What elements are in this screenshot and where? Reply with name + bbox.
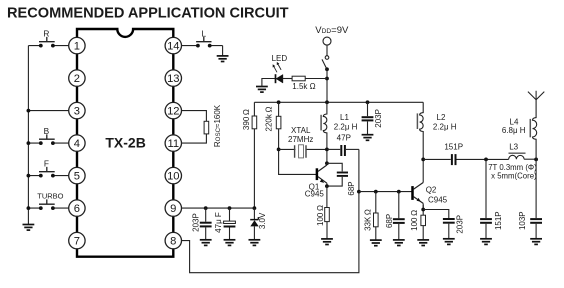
wire to 151P series xyxy=(423,158,451,160)
ground (203P pin9) xyxy=(200,240,212,246)
wire to 47P xyxy=(327,148,340,150)
pin 3 xyxy=(69,102,85,118)
ground (Q2 emitter) xyxy=(417,240,429,246)
svg-text:ROSC≈160K: ROSC≈160K xyxy=(213,104,222,147)
node XTAL/47P/L1 xyxy=(325,148,329,152)
pin 2 xyxy=(69,70,85,86)
ground (33K) xyxy=(370,240,382,246)
capacitor 103P xyxy=(530,219,542,223)
pin 4 xyxy=(69,135,85,151)
svg-text:27MHz: 27MHz xyxy=(288,135,313,144)
wire pin6 to switch TURBO xyxy=(28,207,68,209)
node Q1 emitter xyxy=(325,184,329,188)
Vdd terminal xyxy=(323,37,331,45)
svg-text:B: B xyxy=(44,126,50,136)
wire LED ground riser xyxy=(262,79,276,87)
svg-text:220k Ω: 220k Ω xyxy=(264,107,273,132)
pin 8 xyxy=(165,232,181,248)
wire switch to rail xyxy=(326,69,328,102)
capacitor 203P (pin9) xyxy=(205,208,207,222)
svg-text:TX-2B: TX-2B xyxy=(105,134,145,150)
svg-text:7: 7 xyxy=(74,236,80,248)
pin 9 xyxy=(165,200,181,216)
svg-text:100 Ω: 100 Ω xyxy=(316,205,325,226)
node rail-F xyxy=(27,174,31,178)
wire pin8 feedback to Q2 base node xyxy=(182,149,359,272)
capacitor 47µF electrolytic xyxy=(229,208,231,221)
svg-text:14: 14 xyxy=(167,41,179,53)
svg-text:5: 5 xyxy=(74,171,80,183)
node 151P shunt xyxy=(484,158,488,162)
antenna xyxy=(528,91,544,100)
svg-text:3: 3 xyxy=(74,106,80,118)
wire emitter to 203P right xyxy=(423,210,449,219)
svg-text:1.5k Ω: 1.5k Ω xyxy=(292,82,315,91)
capacitor 151P shunt xyxy=(485,159,487,218)
node 203P xyxy=(204,206,208,210)
wire 220k down to Q1 base xyxy=(279,129,317,175)
node Q2 emitter xyxy=(421,208,425,212)
wire emitter to 100R xyxy=(326,186,328,207)
ground (151P shunt) xyxy=(480,239,492,245)
ground (Q1 emitter) xyxy=(321,239,333,245)
transistor Q2 C945 xyxy=(413,183,424,210)
wire pin4 to switch B xyxy=(28,142,68,144)
L4 core bar xyxy=(529,119,531,137)
node rail-TURBO xyxy=(27,206,31,210)
IC U1 TX-2B body xyxy=(77,29,173,257)
wire pin3 to rail xyxy=(28,110,68,112)
svg-text:RECOMMENDED APPLICATION CIRCUI: RECOMMENDED APPLICATION CIRCUIT xyxy=(7,6,289,22)
ground (68P base) xyxy=(393,240,405,246)
switch R xyxy=(39,28,55,47)
svg-text:13: 13 xyxy=(167,73,179,85)
wire 47P to feedback line xyxy=(346,148,359,150)
wire base node to Q2 xyxy=(359,191,413,193)
svg-text:L: L xyxy=(201,28,206,38)
resistor 390Ω xyxy=(253,102,255,116)
svg-text:4: 4 xyxy=(74,138,80,150)
svg-text:6: 6 xyxy=(74,203,80,215)
node 68P2 xyxy=(397,190,401,194)
svg-text:203P: 203P xyxy=(374,109,383,128)
resistor 1.5kΩ xyxy=(292,76,305,81)
svg-text:8: 8 xyxy=(170,236,176,248)
capacitor 203P (Q2) xyxy=(443,219,455,223)
node zener xyxy=(253,206,257,210)
wire Q2 collector up xyxy=(422,159,424,182)
node Q1 collector xyxy=(325,161,329,165)
svg-text:203P: 203P xyxy=(456,215,465,234)
pin 6 xyxy=(69,200,85,216)
resistor 220kΩ xyxy=(278,102,280,116)
wire pin14 to switch L xyxy=(182,46,223,56)
capacitor 68P (base) xyxy=(398,192,400,219)
inductor L4 6.8uH xyxy=(533,100,537,160)
node rail/203P top xyxy=(366,100,370,104)
wire pin5 to switch F xyxy=(28,175,68,177)
wire Vdd to switch xyxy=(326,45,328,55)
wire Rosc to pin11 xyxy=(182,134,207,143)
transistor Q1 C945 xyxy=(317,163,327,186)
svg-text:3.0V: 3.0V xyxy=(258,212,267,229)
wire 151P to L3 xyxy=(457,158,509,160)
svg-text:6.8μ H: 6.8μ H xyxy=(502,126,526,135)
svg-text:10: 10 xyxy=(167,171,179,183)
switch B xyxy=(39,126,55,145)
svg-text:9: 9 xyxy=(170,203,176,215)
node 47uF xyxy=(228,206,232,210)
svg-text:47P: 47P xyxy=(337,134,351,143)
zener diode 3.0V xyxy=(253,208,255,220)
svg-text:L1: L1 xyxy=(340,113,349,122)
svg-text:LED: LED xyxy=(272,54,288,63)
wire 103P top xyxy=(535,159,537,218)
svg-text:11: 11 xyxy=(167,138,179,150)
pin 7 xyxy=(69,232,85,248)
svg-text:12: 12 xyxy=(167,106,179,118)
wire pin12 to Rosc xyxy=(182,111,207,122)
ground (left rail) xyxy=(23,225,35,231)
wire 1.5k to node xyxy=(305,78,327,80)
resistor 33KΩ xyxy=(375,192,377,213)
wire pin1 to switch R xyxy=(28,45,68,47)
capacitor 151P series xyxy=(452,154,456,165)
pin 14 xyxy=(165,37,181,53)
wire 390 to pin9 net xyxy=(253,129,255,208)
switch TURBO xyxy=(37,192,63,211)
node switch/1.5k xyxy=(325,77,329,81)
node rail/switch xyxy=(325,100,329,104)
svg-text:TURBO: TURBO xyxy=(37,192,63,201)
main supply rail xyxy=(254,101,423,103)
ground (zener) xyxy=(249,240,261,246)
node Q2 collector xyxy=(421,158,425,162)
svg-text:2: 2 xyxy=(74,73,80,85)
LED D1 xyxy=(273,62,283,83)
svg-text:2.2μ H: 2.2μ H xyxy=(433,122,457,131)
L2 core bar xyxy=(416,113,418,129)
svg-text:Q2: Q2 xyxy=(426,186,437,195)
svg-text:33K Ω: 33K Ω xyxy=(364,209,373,231)
svg-text:68P: 68P xyxy=(385,214,394,228)
svg-text:x 5mm(Core): x 5mm(Core) xyxy=(491,172,537,181)
svg-text:L2: L2 xyxy=(437,113,446,122)
wire L3 to antenna node xyxy=(524,158,536,160)
svg-text:100 Ω: 100 Ω xyxy=(410,210,419,231)
svg-text:151P: 151P xyxy=(494,211,503,230)
capacitor 203P (rail) xyxy=(367,102,369,116)
resistor Rosc≈160K xyxy=(204,121,209,134)
node rail-pin3 xyxy=(27,109,31,113)
resistor 100Ω (Q1) xyxy=(325,208,330,222)
inductor L3 xyxy=(509,155,524,159)
svg-text:151P: 151P xyxy=(444,143,463,152)
wire LED to R 1.5k xyxy=(283,78,292,80)
svg-text:103P: 103P xyxy=(518,211,527,230)
pin 5 xyxy=(69,167,85,183)
wire pin9 net xyxy=(182,207,255,209)
svg-text:390 Ω: 390 Ω xyxy=(242,109,251,130)
svg-text:F: F xyxy=(44,158,49,168)
ground (203P Q2) xyxy=(443,239,455,245)
switch L xyxy=(196,28,212,47)
svg-text:XTAL: XTAL xyxy=(291,126,311,135)
switch F xyxy=(39,158,55,177)
svg-text:VDD=9V: VDD=9V xyxy=(315,25,349,36)
node rail-B xyxy=(27,141,31,145)
svg-text:L3: L3 xyxy=(509,142,518,151)
svg-text:68P: 68P xyxy=(347,181,356,195)
L1 core bar xyxy=(320,115,322,131)
node feedback/Q2 base xyxy=(357,190,361,194)
crystal XTAL 27MHz xyxy=(295,145,306,158)
svg-text:C945: C945 xyxy=(428,195,448,204)
svg-text:2.2μ H: 2.2μ H xyxy=(334,123,358,132)
node rail/220k xyxy=(277,100,281,104)
pin 13 xyxy=(165,70,181,86)
ground (203P rail) xyxy=(362,135,374,141)
ground (103P) xyxy=(530,239,542,245)
inductor L1 2.2uH xyxy=(323,102,327,163)
pin 12 xyxy=(165,102,181,118)
pin 10 xyxy=(165,167,181,183)
capacitor 68P (Q1) xyxy=(327,163,342,171)
power switch xyxy=(322,56,329,72)
node 33K xyxy=(374,190,378,194)
svg-text:1: 1 xyxy=(74,41,80,53)
svg-text:203P: 203P xyxy=(191,213,200,232)
resistor 100Ω (Q2) xyxy=(421,215,426,225)
ground (LED) xyxy=(256,87,268,93)
wire Q2 emitter down xyxy=(422,205,424,215)
node antenna xyxy=(534,158,538,162)
svg-text:C945: C945 xyxy=(305,189,325,198)
node 220k/XTAL xyxy=(277,148,281,152)
L3 core bar xyxy=(509,152,526,154)
svg-text:47μ F: 47μ F xyxy=(214,212,223,233)
capacitor 47P xyxy=(341,145,345,156)
svg-text:R: R xyxy=(43,28,49,38)
wire XTAL right xyxy=(307,148,327,150)
pin 11 xyxy=(165,135,181,151)
pin 1 xyxy=(69,37,85,53)
ground (switch L) xyxy=(217,56,229,62)
ground (47uF) xyxy=(224,240,236,246)
left supply rail xyxy=(27,46,29,225)
wire XTAL left xyxy=(279,148,296,150)
inductor L2 2.2uH xyxy=(420,102,424,159)
